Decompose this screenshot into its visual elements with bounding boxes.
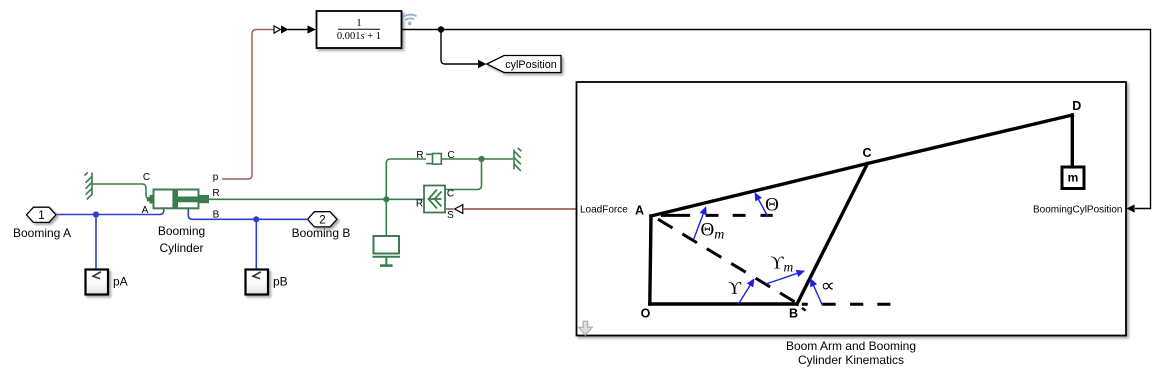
svg-text:Booming: Booming: [158, 224, 205, 238]
logging wifi badge: [404, 15, 416, 20]
junction green at damper line: [478, 156, 484, 162]
line A-O: [650, 216, 651, 304]
mechanical reference clamp (right): [514, 148, 521, 171]
svg-text:LoadForce: LoadForce: [580, 204, 628, 215]
dashed horizontal at B: [802, 303, 891, 306]
transfer function block U1: 1/(0.001s+1): [317, 11, 402, 48]
probe glyph pB: [253, 272, 261, 279]
Booming Cylinder block: [147, 190, 209, 209]
svg-text:Θ: Θ: [765, 195, 779, 216]
svg-text:Booming B: Booming B: [292, 226, 351, 240]
gray subsystem resize arrow: [579, 321, 592, 335]
line O-B: [650, 302, 797, 305]
svg-text:Booming A: Booming A: [13, 226, 71, 240]
svg-text:C: C: [143, 172, 150, 183]
arrowhead after converter: [281, 25, 289, 33]
Simulink-PS converter open triangle at S: [455, 205, 463, 214]
input port 2 hexagon: [308, 212, 338, 227]
pA pressure sensor block: [86, 270, 109, 295]
svg-text:D: D: [1072, 99, 1081, 113]
svg-text:R: R: [416, 150, 423, 161]
svg-text:∝: ∝: [821, 276, 836, 296]
svg-text:B: B: [213, 210, 220, 221]
svg-text:pB: pB: [273, 275, 288, 289]
wire: green branch down to mass: [385, 199, 387, 236]
arrowhead into goto tag: [478, 60, 486, 68]
svg-text:cylPosition: cylPosition: [505, 59, 557, 71]
wire: black signal into transfer fcn: [288, 29, 308, 31]
probe glyph pA: [93, 272, 101, 279]
fraction bar: [338, 28, 380, 30]
svg-text:B: B: [789, 307, 798, 321]
wire: red from subsystem LoadForce to converter: [463, 208, 577, 210]
junction dot: [438, 26, 444, 32]
wire: damper C to clamp: [441, 158, 513, 160]
svg-text:ϒ: ϒ: [728, 278, 742, 298]
svg-text:0.001s + 1: 0.001s + 1: [337, 31, 381, 42]
cylinder line B-C: [797, 164, 868, 305]
svg-text:A: A: [635, 204, 644, 218]
wire: green branch up to damper R: [386, 159, 426, 199]
junction node A-side: [93, 211, 99, 217]
dashed horizontal at A: [661, 214, 773, 217]
junction node B-side: [253, 216, 259, 222]
wire: red physical-signal wire from cylinder port p up and right to converter: [222, 30, 274, 180]
svg-text:S: S: [447, 210, 454, 221]
mass box m: [1062, 167, 1084, 189]
angle arrow theta_m: [694, 208, 706, 240]
angle arrow gamma_m: [766, 271, 804, 284]
wire: blue drop to pB sensor: [255, 219, 257, 269]
svg-text:R: R: [416, 199, 423, 210]
goto tag cylPosition: [487, 56, 561, 73]
wire: blue B-side wire from cylinder port B to port 2: [188, 204, 307, 219]
wire: blue drop to pA sensor: [95, 215, 97, 270]
svg-text:BoomingCylPosition: BoomingCylPosition: [1033, 204, 1123, 215]
svg-text:C: C: [862, 146, 871, 160]
svg-text:Boom Arm and Booming: Boom Arm and Booming: [786, 339, 916, 353]
svg-text:A: A: [142, 205, 149, 216]
subsystem: Boom Arm and Booming Cylinder Kinematics: [577, 82, 1127, 336]
wire: branch down from damper line to force source C: [445, 159, 482, 190]
svg-text:C: C: [447, 189, 454, 200]
arrowhead at transfer fcn input: [308, 25, 316, 33]
svg-text:p: p: [213, 172, 219, 183]
ideal force source block: [424, 186, 445, 213]
angle arrow alpha: [811, 279, 823, 305]
line D to mass: [1071, 115, 1074, 167]
wire: branch down to Goto tag: [441, 30, 478, 65]
dashed diagonal A-B: [658, 219, 801, 305]
tick after B: [802, 308, 806, 311]
translational reference foot: [380, 264, 393, 267]
translational damper: [426, 154, 441, 165]
boom drawing: thick lines: [650, 115, 1073, 304]
svg-text:m: m: [1068, 171, 1079, 185]
angle arrow gamma: [739, 280, 754, 305]
arrowhead into subsystem right port: [1127, 204, 1135, 212]
svg-text:R: R: [212, 188, 219, 199]
svg-text:Cylinder Kinematics: Cylinder Kinematics: [798, 353, 904, 367]
junction green: [383, 196, 389, 202]
mass block (green): [373, 236, 401, 265]
svg-text:2: 2: [319, 215, 325, 227]
wire: green rod R to force source R: [209, 198, 424, 200]
wire: blue A-side wire from port 1 to cylinder port A: [56, 204, 164, 215]
svg-text:1: 1: [38, 210, 44, 222]
input port 1 hexagon: [27, 207, 57, 222]
PS-Simulink converter (open triangle): [274, 26, 280, 33]
wire: transfer fcn output runs right to subsystem right side: [402, 30, 1151, 209]
svg-text:Cylinder: Cylinder: [159, 241, 203, 255]
svg-text:1: 1: [356, 17, 362, 29]
wire: green from clamp to cylinder port C: [92, 184, 151, 199]
mechanical reference clamp (left): [85, 172, 93, 199]
wire: red from S to converter triangle: [445, 208, 454, 210]
svg-text:pA: pA: [113, 275, 128, 289]
svg-text:O: O: [641, 307, 651, 321]
pB pressure sensor block: [246, 270, 269, 295]
boom line A-C-D: [651, 115, 1072, 216]
angle arrow theta: [755, 194, 768, 218]
